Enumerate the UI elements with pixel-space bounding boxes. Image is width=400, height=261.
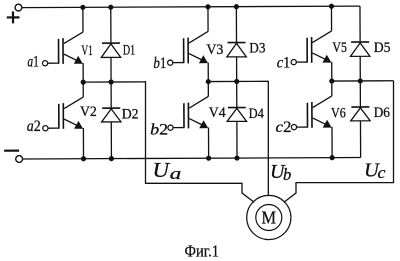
svg-text:U: U bbox=[153, 158, 171, 182]
svg-text:D3: D3 bbox=[249, 41, 265, 57]
svg-text:D4: D4 bbox=[249, 106, 265, 122]
wire output Ub bbox=[267, 81, 269, 196]
wire D5 anode bbox=[359, 56, 361, 81]
transistor V3 bbox=[167, 31, 208, 65]
transistor V5 bbox=[291, 31, 332, 65]
junction V5 top bbox=[329, 4, 334, 9]
terminal minus bbox=[4, 150, 19, 152]
wire D4 cathode bbox=[236, 81, 238, 107]
svg-text:V4: V4 bbox=[209, 105, 226, 121]
wire V2 collector bbox=[82, 82, 84, 97]
diode D6 bbox=[351, 107, 370, 121]
wire V1 emitter bbox=[82, 63, 84, 82]
svg-text:c: c bbox=[378, 163, 387, 182]
svg-text:D5: D5 bbox=[374, 40, 391, 56]
svg-text:D6: D6 bbox=[374, 105, 390, 121]
wire output Uc bbox=[284, 81, 394, 203]
diode D2 bbox=[102, 108, 121, 122]
junction D1 mid bbox=[108, 79, 113, 84]
svg-text:V2: V2 bbox=[80, 104, 97, 120]
svg-text:a1: a1 bbox=[27, 54, 39, 71]
junction D3 top bbox=[234, 4, 239, 9]
svg-text:M: M bbox=[262, 208, 277, 228]
diode D5 bbox=[350, 42, 369, 56]
terminal plus bbox=[7, 11, 20, 23]
wire V6 emitter bbox=[331, 127, 333, 158]
svg-text:V3: V3 bbox=[206, 42, 223, 58]
junction V3 mid bbox=[206, 79, 211, 84]
wire V1 collector bbox=[82, 7, 84, 32]
svg-text:Фиг.1: Фиг.1 bbox=[185, 242, 220, 261]
wire D6 anode bbox=[359, 121, 361, 158]
junction V1 top bbox=[80, 5, 85, 10]
svg-text:V5: V5 bbox=[332, 40, 347, 56]
diode D4 bbox=[227, 108, 246, 122]
wire top rail (+ bus) bbox=[22, 6, 360, 7]
wire V3 collector bbox=[207, 7, 209, 32]
svg-text:b2: b2 bbox=[150, 121, 168, 138]
transistor V1 bbox=[42, 32, 83, 66]
diode D3 bbox=[227, 43, 246, 57]
transistor V6 bbox=[291, 96, 332, 130]
svg-text:D1: D1 bbox=[123, 42, 135, 58]
wire D4 anode bbox=[236, 121, 238, 158]
wire V4 collector bbox=[207, 82, 209, 97]
wire output Ua bbox=[146, 81, 255, 202]
wire D1 anode bbox=[110, 57, 112, 82]
svg-text:b1: b1 bbox=[153, 55, 166, 72]
junction D4 bottom bbox=[234, 155, 239, 160]
junction D1 top bbox=[108, 5, 113, 10]
wire V4 emitter bbox=[207, 127, 209, 158]
wire bottom rail (- bus) bbox=[23, 158, 361, 159]
wire D3 anode bbox=[236, 57, 238, 82]
junction D3 mid bbox=[234, 79, 239, 84]
motor M1 bbox=[247, 195, 291, 239]
svg-text:a2: a2 bbox=[27, 118, 41, 135]
svg-text:c1: c1 bbox=[277, 55, 291, 72]
junction V1 mid bbox=[81, 80, 86, 85]
junction V3 top bbox=[205, 4, 210, 9]
wire D6 cathode bbox=[359, 81, 361, 107]
transistor V2 bbox=[43, 97, 84, 131]
junction V2 bottom bbox=[81, 156, 86, 161]
wire phase c mid rail bbox=[332, 80, 393, 82]
svg-text:D2: D2 bbox=[122, 107, 139, 123]
junction V6 bottom bbox=[330, 155, 335, 160]
wire V5 emitter bbox=[331, 62, 333, 81]
wire V3 emitter bbox=[207, 62, 209, 81]
svg-text:V1: V1 bbox=[81, 43, 93, 59]
wire D5 cathode bbox=[359, 6, 361, 42]
svg-text:b: b bbox=[283, 165, 291, 184]
svg-text:c2: c2 bbox=[276, 119, 292, 136]
wire D3 cathode bbox=[235, 7, 237, 43]
wire V6 collector bbox=[331, 81, 333, 96]
svg-text:V6: V6 bbox=[331, 105, 346, 121]
junction V4 bottom bbox=[206, 156, 211, 161]
wire phase b mid rail bbox=[208, 80, 268, 82]
diode D1 bbox=[101, 43, 120, 57]
junction D2 bottom bbox=[109, 156, 114, 161]
junction D5 mid bbox=[358, 78, 363, 83]
junction V5 mid bbox=[329, 78, 334, 83]
wire phase a mid rail bbox=[83, 81, 145, 83]
wire V5 collector bbox=[330, 6, 332, 31]
svg-text:a: a bbox=[170, 164, 182, 183]
wire D1 cathode bbox=[110, 7, 112, 43]
wire D2 cathode bbox=[110, 82, 112, 108]
transistor V4 bbox=[168, 96, 209, 130]
wire D2 anode bbox=[110, 122, 112, 159]
wire V2 emitter bbox=[82, 128, 84, 159]
